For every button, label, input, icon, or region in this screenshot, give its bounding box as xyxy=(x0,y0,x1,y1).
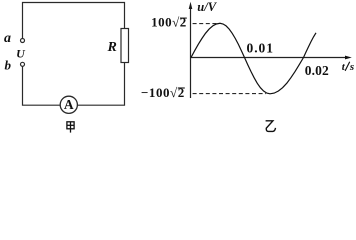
svg-text:u/V: u/V xyxy=(197,0,217,14)
svg-text:b: b xyxy=(5,57,12,72)
svg-text:s: s xyxy=(349,61,354,73)
svg-text:a: a xyxy=(4,31,11,46)
svg-text:−100√2: −100√2 xyxy=(141,85,185,100)
svg-text:R: R xyxy=(107,40,117,55)
svg-text:100√2: 100√2 xyxy=(151,15,187,30)
svg-text:t: t xyxy=(342,61,346,73)
svg-text:0.01: 0.01 xyxy=(247,40,274,55)
svg-text:0.02: 0.02 xyxy=(305,63,329,78)
svg-text:U: U xyxy=(16,47,26,61)
svg-text:A: A xyxy=(64,97,74,112)
